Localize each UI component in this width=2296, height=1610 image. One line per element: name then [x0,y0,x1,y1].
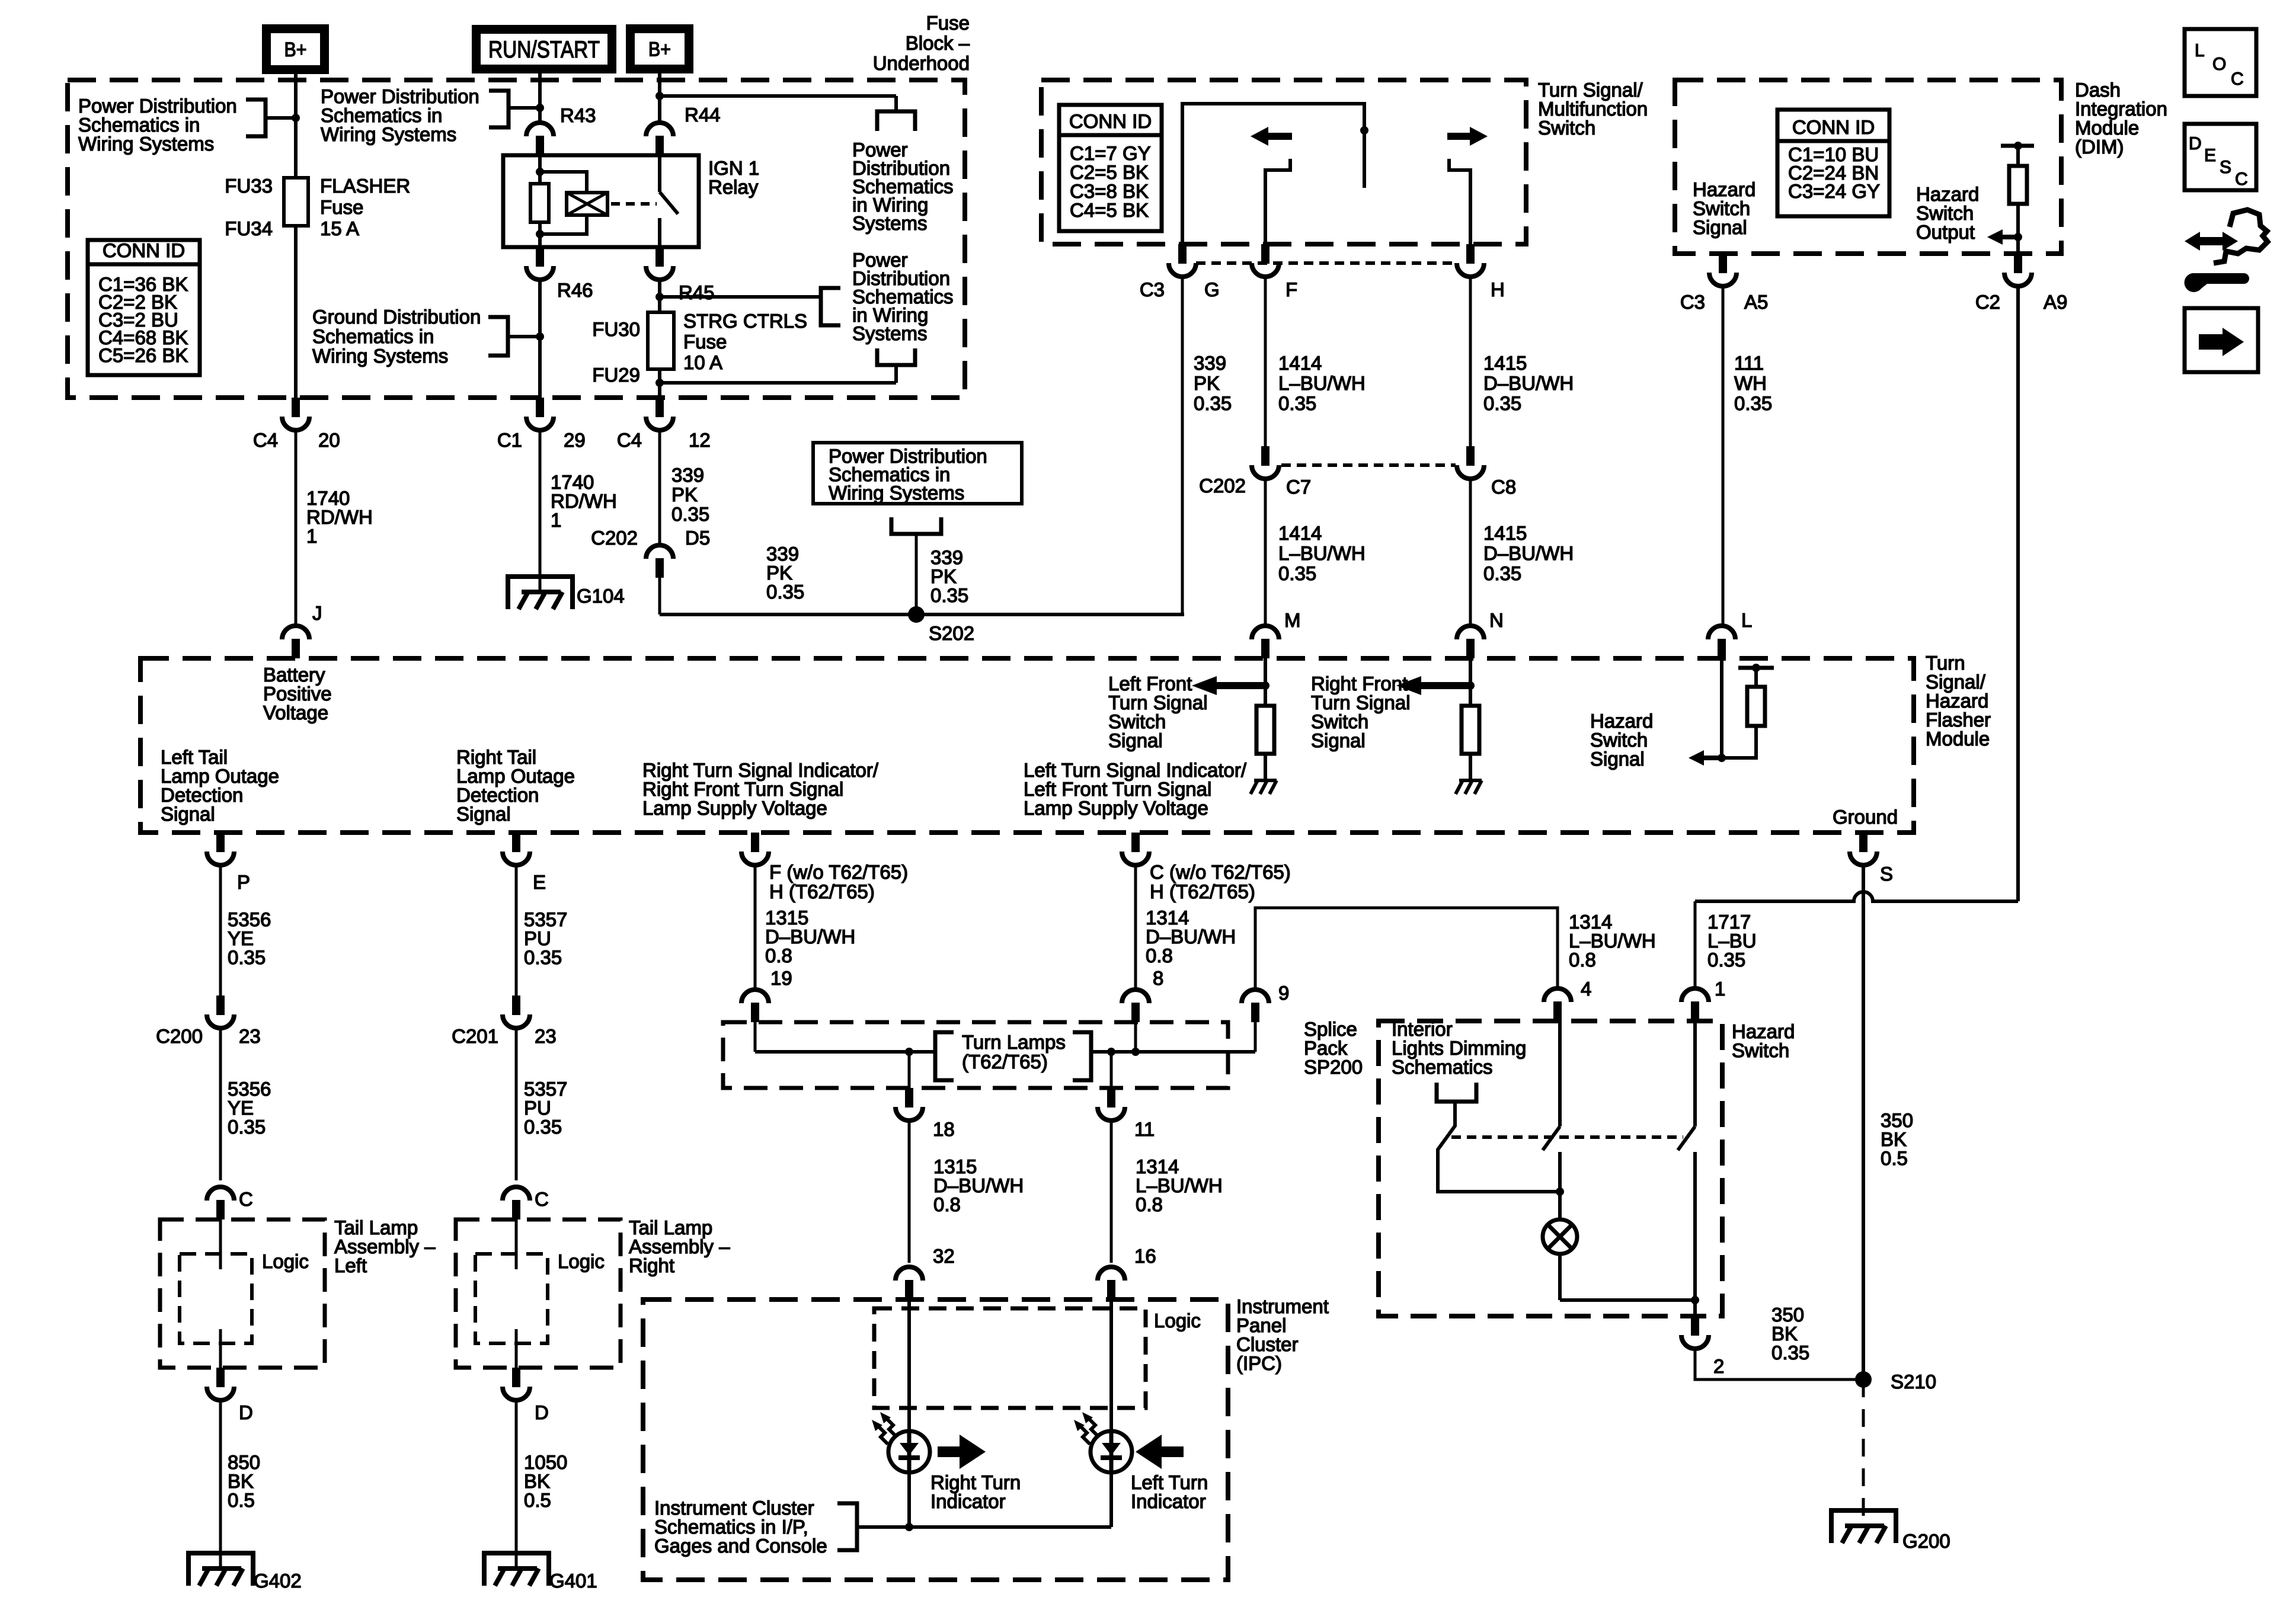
svg-text:23: 23 [239,1025,261,1047]
svg-text:Signal: Signal [456,803,511,825]
hazard main contact [1693,1021,1697,1126]
wire 111 WH [1722,286,1725,627]
pin 18 drop [908,1052,911,1088]
connector H [1466,244,1475,264]
DESC icon [2185,124,2256,190]
node on R43 wire [536,104,544,112]
svg-text:C: C [239,1188,253,1210]
fuse FU33/FU34 FLASHER 15A [284,178,308,226]
svg-text:C: C [535,1188,549,1210]
wire 1740 RD/WH right [539,430,542,592]
node pole [1360,126,1368,135]
svg-text:1415: 1415 [1483,352,1527,374]
connector 4 symbol [1544,988,1571,1002]
svg-text:23: 23 [535,1025,557,1047]
wire 5356 YE upper [219,865,222,997]
bracket to R46 wire [488,317,508,356]
connector S [1859,833,1868,852]
connector C8 [1466,446,1475,466]
connector C200 23 [216,996,225,1015]
connector C202 C7 [1261,446,1269,466]
bracket to R43 wire [489,91,509,127]
svg-text:D: D [2189,134,2202,153]
svg-text:29: 29 [564,429,586,451]
svg-text:0.35: 0.35 [1707,949,1745,971]
svg-text:D: D [535,1401,549,1423]
node M branch [1261,681,1269,690]
svg-text:C3: C3 [1140,279,1165,300]
svg-text:SP200: SP200 [1304,1056,1363,1078]
wire 1415 D-BU/WH (H) [1469,277,1472,447]
wire into splice [754,1022,757,1052]
svg-text:16: 16 [1134,1245,1156,1267]
connector F [1261,244,1269,264]
resistor N pulldown [1462,706,1479,754]
svg-text:0.35: 0.35 [1771,1342,1809,1363]
svg-text:CONN ID: CONN ID [1792,116,1875,138]
svg-text:S: S [2220,158,2231,177]
svg-text:R45: R45 [679,281,715,303]
wire to internal ground [1264,754,1267,780]
svg-text:FU29: FU29 [592,364,640,386]
arrow hazard switch output [1987,229,2003,245]
svg-text:C4: C4 [253,429,278,451]
connector R46 [536,247,544,267]
connector C/H [1131,833,1140,852]
svg-text:H (T62/T65): H (T62/T65) [1150,881,1255,902]
svg-text:111: 111 [1734,352,1764,374]
svg-text:0.35: 0.35 [228,946,266,968]
svg-text:0.35: 0.35 [1483,562,1521,584]
wire box to S202 [915,534,918,614]
pin 9 riser [1254,1022,1257,1052]
svg-text:C8: C8 [1491,476,1516,498]
right turn arrow [1470,127,1488,146]
svg-text:0.5: 0.5 [1881,1147,1908,1169]
wire 5356 YE lower [219,1028,222,1180]
svg-text:Switch: Switch [1732,1039,1789,1061]
svg-text:L–BU/WH: L–BU/WH [1278,372,1366,394]
svg-text:18: 18 [933,1118,955,1140]
Dash Integration Module dashed box [1675,80,2061,254]
svg-text:Fuse: Fuse [683,331,727,353]
wire below fuse [658,369,661,398]
svg-text:0.35: 0.35 [228,1116,266,1138]
svg-text:11: 11 [1134,1118,1155,1140]
svg-text:G200: G200 [1902,1530,1950,1552]
svg-text:Indicator: Indicator [930,1490,1006,1512]
lamp blade [1543,1126,1560,1150]
right (H) contact [1449,159,1470,244]
Tail Lamp Assembly - Left dashed box [160,1219,325,1368]
svg-text:Logic: Logic [262,1250,309,1272]
svg-text:32: 32 [933,1245,955,1267]
left (F) contact [1265,159,1290,244]
solid box Power Distribution Schematics in Wiring Systems [813,443,1022,504]
node on B+ wire [292,114,300,122]
svg-text:G: G [1204,279,1220,300]
wire R46 down [538,280,542,398]
svg-text:0.35: 0.35 [766,581,804,603]
bracket instrument cluster [837,1503,857,1550]
svg-text:Turn Lamps: Turn Lamps [962,1031,1066,1053]
svg-text:A9: A9 [2044,291,2067,313]
svg-text:P: P [237,871,250,893]
svg-text:Voltage: Voltage [263,702,328,724]
wire down to connector 1 [1694,901,1697,989]
bracket below solid box [891,517,941,534]
wire 1717 L-BU from hazard to A9 [1695,892,2018,901]
svg-text:D: D [239,1401,253,1423]
wire to right LED [907,1299,911,1434]
svg-text:R46: R46 [557,279,593,301]
svg-text:WH: WH [1734,372,1767,394]
svg-text:Ground Distribution: Ground Distribution [312,306,481,328]
wire to internal ground [1469,754,1472,780]
node lamp feed [1556,1188,1564,1196]
connector 16 [1098,1267,1125,1281]
node rail [1752,664,1760,672]
svg-text:Module: Module [1926,728,1990,750]
dashed actuator link [611,202,657,206]
svg-text:C202: C202 [1199,475,1246,497]
logic dashed box (left tail) [180,1254,252,1343]
wire 850 BK [219,1400,222,1569]
illumination lamp [1558,1192,1562,1219]
svg-text:12: 12 [689,429,711,451]
wire 1314 to IPC 16 [1110,1121,1113,1263]
svg-text:FU34: FU34 [225,217,273,239]
left turn arrow [1251,127,1268,146]
internal ground (N) [1459,779,1482,782]
svg-text:4: 4 [1581,978,1591,1000]
svg-text:0.8: 0.8 [765,945,792,966]
svg-text:L–BU/WH: L–BU/WH [1278,542,1366,564]
svg-text:RUN/START: RUN/START [488,37,600,63]
wire stubs in logic (left) [219,1219,222,1269]
wire 350 BK from S [1862,865,1865,1379]
svg-text:0.8: 0.8 [1569,949,1596,971]
svg-text:2: 2 [1713,1355,1724,1377]
svg-text:G104: G104 [577,585,625,607]
splice bus wire left [755,1050,934,1054]
internal ground (M) [1254,779,1277,782]
wire 1314 D-BU/WH [1134,865,1137,989]
svg-text:15 A: 15 A [320,217,359,239]
svg-text:H: H [1491,279,1505,300]
Splice Pack SP200 dashed box [723,1022,1228,1088]
relay solenoid X-box [567,193,607,215]
relay solenoid branch [540,172,587,193]
RUN/START feed box [472,25,616,73]
fuse FU30/FU29 STRG CTRLS 10A [648,312,674,369]
connector R45 [655,247,664,267]
LED left turn indicator [1091,1431,1132,1473]
svg-text:Signal: Signal [1311,729,1366,751]
hazard lamp contact wire [1558,1021,1562,1126]
svg-text:1415: 1415 [1483,522,1527,544]
svg-text:C3=24 GY: C3=24 GY [1788,180,1880,202]
svg-text:L: L [1741,609,1752,631]
node R45 branch [655,293,664,301]
wire N input [1469,658,1472,706]
svg-text:STRG CTRLS: STRG CTRLS [683,310,807,332]
svg-text:D–BU/WH: D–BU/WH [1483,372,1574,394]
Tail Lamp Assembly - Right dashed box [456,1219,621,1368]
svg-text:1: 1 [551,509,561,531]
resistor M pulldown [1256,706,1274,754]
svg-text:C201: C201 [452,1025,498,1047]
svg-text:C: C [2231,69,2244,89]
svg-text:Wiring Systems: Wiring Systems [321,123,456,145]
svg-text:S210: S210 [1891,1371,1936,1393]
svg-text:C3: C3 [1680,291,1705,313]
rail tick [1738,666,1774,670]
indicator common wire [857,1525,1111,1529]
svg-text:L: L [2195,41,2205,60]
svg-text:0.35: 0.35 [1278,562,1316,584]
svg-text:Fuse: Fuse [926,12,970,34]
svg-text:10 A: 10 A [683,351,722,373]
bracket dimmer [1437,1083,1476,1102]
svg-text:Schematics: Schematics [1392,1056,1493,1078]
svg-text:9: 9 [1278,982,1289,1004]
connector D (left tail) [216,1368,225,1387]
connector 2 [1691,1316,1699,1336]
node indicator common [905,1523,913,1531]
svg-text:Signal: Signal [1693,216,1747,238]
wire A9 down [2016,286,2020,901]
hazard blade [1678,1126,1695,1150]
wire L input [1720,658,1723,758]
bracket power dist (bottom) [877,348,915,365]
svg-text:339: 339 [1194,352,1226,374]
svg-text:C1: C1 [497,429,522,451]
ground G401 [484,1553,549,1586]
svg-text:0.8: 0.8 [1136,1193,1163,1215]
svg-text:O: O [2212,55,2226,74]
wire 5357 PU lower [515,1028,518,1180]
svg-text:Signal: Signal [1590,748,1645,770]
CONN ID table (DIM) [1777,110,1889,216]
svg-text:N: N [1489,609,1504,631]
svg-text:CONN ID: CONN ID [1069,110,1152,132]
CONN ID table (fuse block) [88,240,200,375]
svg-text:1: 1 [1715,978,1725,1000]
connector 32 [896,1267,923,1281]
node L branch [1718,754,1726,762]
Instrument Panel Cluster dashed box [643,1299,1228,1580]
ground G104 [508,577,573,609]
svg-text:Left: Left [334,1254,367,1276]
relay IGN 1 box [503,155,699,247]
connector F/H [751,833,759,852]
resistor L pullup [1747,687,1765,726]
node N branch [1466,681,1475,690]
svg-text:F (w/o T62/T65): F (w/o T62/T65) [769,861,908,883]
svg-text:PK: PK [1194,372,1220,394]
wire 339 PK [658,430,661,546]
svg-text:C7: C7 [1286,476,1311,498]
svg-text:D–BU/WH: D–BU/WH [1483,542,1574,564]
wire resistor to rail [1754,668,1758,687]
svg-text:S: S [1880,863,1893,885]
svg-text:Logic: Logic [1154,1310,1201,1331]
svg-text:C4: C4 [617,429,642,451]
svg-text:Wiring Systems: Wiring Systems [829,482,964,504]
svg-text:Schematics in: Schematics in [312,325,434,347]
svg-text:B+: B+ [284,39,307,61]
wire to L pullup resistor [1722,726,1756,758]
dimmer wire and blade [1438,1102,1560,1192]
bracket [ [935,1032,954,1080]
svg-text:Lamp Supply Voltage: Lamp Supply Voltage [642,797,827,819]
svg-text:20: 20 [318,429,340,451]
wire B+ down to flasher fuse [294,74,298,179]
wire 5357 PU upper [515,865,518,997]
arrow right front turn signal switch signal [1396,676,1421,695]
svg-text:C4=5 BK: C4=5 BK [1070,199,1149,221]
svg-text:(DIM): (DIM) [2075,136,2124,158]
node pin18 [905,1048,913,1056]
svg-text:0.5: 0.5 [228,1489,255,1511]
svg-text:Signal: Signal [161,803,215,825]
arrow left indicator [1136,1435,1162,1469]
arrow left front turn signal switch signal [1192,676,1217,695]
splice S202 wire [660,613,1184,616]
B+ feed box (right) [626,24,693,73]
wire 1315 D-BU/WH [754,865,757,989]
Turn Signal/Hazard Flasher Module dashed box [140,658,1914,833]
C202 gang dashed line [1281,463,1456,467]
connector C4 12 [655,398,664,417]
svg-text:0.35: 0.35 [524,946,562,968]
svg-text:Underhood: Underhood [873,52,970,74]
svg-text:E: E [533,871,546,893]
node on R46 wire [536,332,544,341]
LED right turn indicator [888,1431,930,1473]
svg-text:B+: B+ [648,39,671,61]
logic dashed box (IPC) [874,1308,1146,1408]
node R44 branch [655,92,664,100]
connector P [216,833,225,852]
svg-text:0.35: 0.35 [1734,392,1772,414]
DIM pullup resistor [2001,144,2034,148]
wire 1315 to IPC 32 [908,1121,911,1263]
dashed wire to G200 [1862,1379,1865,1526]
connector E [512,833,520,852]
relay switch contact [658,155,661,192]
svg-text:FLASHER: FLASHER [320,175,410,197]
svg-text:Switch: Switch [1538,117,1595,139]
svg-text:F: F [1285,279,1297,300]
connector R44 [646,123,673,136]
wire 1050 BK [515,1400,518,1569]
svg-text:G402: G402 [254,1570,302,1592]
connector R43 [526,123,554,136]
svg-text:0.35: 0.35 [671,503,709,525]
svg-text:Lamp Supply Voltage: Lamp Supply Voltage [1024,797,1208,819]
connector C3 A5 [1719,254,1727,273]
svg-text:C2: C2 [1975,291,2000,313]
connector C3 G [1178,244,1187,264]
wrench/diagnostic icon [2185,232,2200,251]
connector C4 20 [292,398,300,417]
svg-text:Systems: Systems [852,212,928,234]
svg-text:Output: Output [1916,221,1975,243]
svg-text:Wiring Systems: Wiring Systems [312,345,448,367]
bracket power dist (right mid) [821,288,840,325]
wire B+ to relay R44 [658,73,661,124]
splice S202 [908,606,925,623]
node pin8 [1131,1048,1140,1056]
wire stubs in logic (right) [515,1219,518,1269]
svg-text:0.35: 0.35 [1278,392,1316,414]
svg-text:8: 8 [1153,967,1163,989]
svg-text:A5: A5 [1744,291,1768,313]
splice bus wire right [1091,1050,1255,1054]
Hazard Switch dashed box [1379,1021,1722,1316]
svg-text:0.35: 0.35 [930,584,968,606]
wire 1414 L-BU/WH (F) [1264,277,1267,447]
bracket to B+ wire [246,100,266,136]
Turn Signal/Multifunction Switch dashed box [1041,80,1526,244]
svg-text:J: J [312,602,322,624]
svg-text:CONN ID: CONN ID [103,239,185,261]
wire to left LED [1109,1299,1113,1434]
svg-text:C5=26 BK: C5=26 BK [98,344,188,366]
bracket ] [1073,1032,1091,1080]
svg-text:Signal: Signal [1108,729,1163,751]
logic dashed box (right tail) [475,1254,548,1343]
svg-text:Fuse: Fuse [320,196,363,218]
pin 11 drop [1110,1052,1113,1088]
svg-text:1414: 1414 [1278,522,1322,544]
bracket power dist (upper right) [877,111,915,131]
arrow hazard switch signal [1689,750,1704,766]
svg-text:Block –: Block – [906,32,970,54]
switch pole wire [1182,104,1364,244]
svg-text:C (w/o T62/T65): C (w/o T62/T65) [1150,861,1291,883]
svg-text:339: 339 [671,464,704,486]
svg-text:C200: C200 [156,1025,203,1047]
C3 gang dashed line [1196,261,1457,265]
svg-text:G401: G401 [549,1570,597,1592]
svg-text:0.8: 0.8 [933,1193,961,1215]
svg-text:(IPC): (IPC) [1236,1352,1282,1374]
svg-text:Wiring Systems: Wiring Systems [78,133,214,155]
wire 339 PK (G) [1181,277,1184,614]
svg-text:D5: D5 [685,527,710,549]
svg-text:1: 1 [306,525,317,547]
wire M input [1264,658,1267,706]
wire 1740 RD/WH left [295,430,298,627]
svg-text:Logic: Logic [558,1250,605,1272]
svg-text:R44: R44 [685,104,721,126]
svg-text:1414: 1414 [1278,352,1322,374]
svg-text:0.35: 0.35 [1483,392,1521,414]
CONN ID table (switch) [1059,105,1162,231]
svg-text:R43: R43 [560,104,596,126]
arrow right indicator [960,1435,986,1469]
mechanical dashed link [1451,1135,1683,1139]
svg-text:PK: PK [671,484,698,505]
svg-text:E: E [2204,146,2216,165]
connector C2 A9 [2014,254,2022,273]
svg-text:0.35: 0.35 [524,1116,562,1138]
svg-text:Ground: Ground [1833,806,1898,828]
connector C201 23 [512,996,520,1015]
